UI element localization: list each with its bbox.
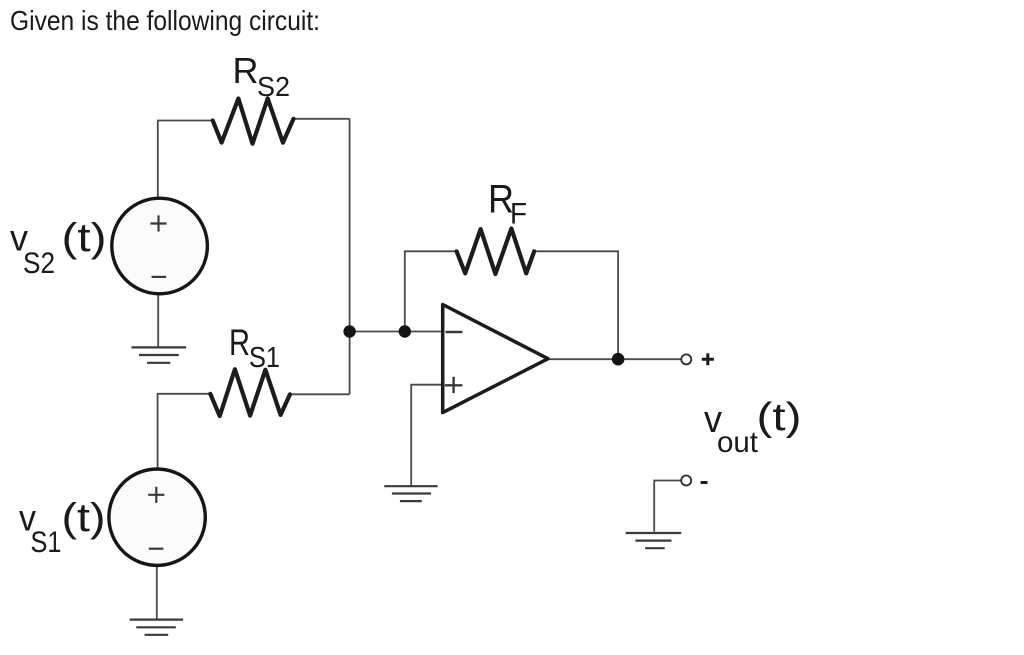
+ output terminal plus sign bbox=[702, 353, 714, 365]
VS2 plus sign bbox=[150, 215, 166, 231]
svg-text:out: out bbox=[717, 426, 759, 459]
wire op-amp output to + terminal bbox=[548, 358, 681, 360]
resistor RF bbox=[457, 229, 535, 275]
wire node A to op-amp inverting input bbox=[350, 331, 441, 333]
ground at op-amp noninverting input bbox=[384, 486, 437, 501]
node B junction dot bbox=[399, 325, 411, 337]
- output terminal circle bbox=[681, 476, 691, 486]
wire RS2 right to vertical bus bbox=[294, 118, 350, 120]
- output terminal minus sign bbox=[701, 481, 708, 484]
label RS2 bbox=[233, 50, 291, 102]
op-amp noninverting input plus mark bbox=[445, 377, 463, 393]
label RS1 bbox=[229, 322, 280, 374]
svg-text:S2: S2 bbox=[257, 71, 290, 102]
svg-text:S2: S2 bbox=[23, 247, 55, 280]
ground below VS2 bbox=[132, 347, 187, 362]
label RF bbox=[488, 178, 527, 231]
wire RF right down to output node bbox=[534, 251, 618, 359]
op-amp inverting input minus mark bbox=[446, 331, 463, 333]
wire node B up to RF left bbox=[405, 251, 457, 331]
wire vertical bus bbox=[349, 119, 351, 395]
svg-text:(t): (t) bbox=[757, 396, 802, 439]
wire op-amp noninverting input to ground bbox=[411, 385, 444, 487]
wire RS1 right to vertical bus bbox=[290, 393, 350, 395]
svg-text:(t): (t) bbox=[62, 496, 106, 540]
op-amp U1 bbox=[443, 305, 548, 413]
svg-text:S1: S1 bbox=[31, 526, 62, 559]
wire VS1 to ground bbox=[156, 565, 158, 619]
svg-text:S1: S1 bbox=[249, 342, 280, 374]
svg-text:F: F bbox=[510, 198, 527, 231]
svg-text:R: R bbox=[233, 50, 259, 91]
wire RS2 left to VS2 top bbox=[158, 121, 213, 199]
svg-text:Given is the following circuit: Given is the following circuit: bbox=[10, 5, 320, 36]
VS1 plus sign bbox=[148, 487, 164, 503]
wire VS2 to ground bbox=[157, 294, 159, 347]
label vout(t) bbox=[704, 396, 802, 459]
node A junction dot bbox=[343, 325, 355, 337]
wire - terminal to ground bbox=[654, 481, 681, 532]
label vS1(t) bbox=[19, 496, 106, 559]
VS1 minus sign bbox=[149, 548, 164, 550]
resistor RS2 bbox=[213, 99, 294, 144]
wire RS1 left to VS1 top bbox=[158, 394, 211, 470]
label vS2(t) bbox=[10, 216, 107, 280]
voltage source VS2 bbox=[112, 198, 208, 294]
ground below VS1 bbox=[130, 620, 183, 635]
resistor RS1 bbox=[210, 369, 290, 416]
+ output terminal circle bbox=[681, 354, 691, 364]
voltage source VS1 bbox=[109, 469, 205, 565]
output node junction dot bbox=[612, 353, 625, 366]
VS2 minus sign bbox=[152, 276, 167, 278]
ground at - output terminal bbox=[626, 533, 682, 548]
svg-text:R: R bbox=[229, 322, 250, 363]
svg-text:(t): (t) bbox=[62, 216, 107, 260]
